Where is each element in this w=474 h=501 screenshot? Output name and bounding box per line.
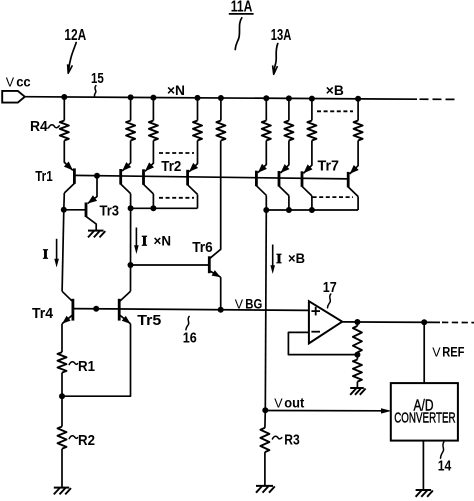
svg-text:×N: ×N [167, 82, 185, 98]
svg-text:V: V [6, 76, 15, 90]
svg-text:15: 15 [91, 70, 104, 87]
svg-text:×B: ×B [288, 250, 305, 266]
svg-text:17: 17 [323, 279, 337, 296]
svg-text:CONVERTER: CONVERTER [394, 411, 455, 427]
svg-text:×N: ×N [154, 233, 172, 249]
svg-text:Tr7: Tr7 [318, 158, 340, 175]
svg-text:R4: R4 [30, 118, 48, 135]
svg-text:I: I [142, 234, 148, 250]
svg-text:Tr4: Tr4 [32, 305, 54, 322]
svg-text:BG: BG [245, 296, 262, 311]
svg-text:REF: REF [442, 344, 464, 359]
svg-text:×B: ×B [326, 82, 344, 98]
svg-text:Tr1: Tr1 [35, 168, 53, 185]
svg-text:14: 14 [438, 458, 452, 475]
svg-text:16: 16 [183, 329, 197, 346]
svg-text:Tr2: Tr2 [161, 158, 181, 175]
svg-text:V: V [235, 297, 244, 311]
svg-text:out: out [284, 395, 304, 410]
svg-text:R1: R1 [78, 358, 95, 375]
svg-text:Tr6: Tr6 [192, 239, 213, 256]
svg-text:I: I [276, 252, 281, 267]
svg-text:V: V [274, 396, 283, 410]
svg-text:12A: 12A [64, 27, 86, 44]
svg-text:cc: cc [16, 75, 31, 90]
svg-text:V: V [432, 345, 441, 359]
svg-text:I: I [43, 248, 48, 263]
svg-text:R3: R3 [284, 431, 300, 448]
svg-text:R2: R2 [78, 432, 95, 449]
svg-text:Tr5: Tr5 [137, 312, 161, 329]
svg-text:13A: 13A [271, 27, 292, 44]
svg-text:Tr3: Tr3 [100, 203, 120, 220]
